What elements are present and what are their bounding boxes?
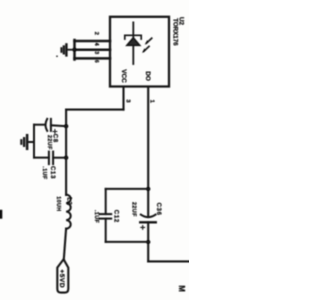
svg-text:6: 6 (93, 60, 99, 63)
wire C12 loop left upper (105, 189, 107, 214)
wire L2 to +5VD (64, 229, 66, 260)
photodiode cathode bar (125, 35, 141, 39)
junction node C8 (64, 124, 68, 128)
photodiode triangle (127, 38, 140, 46)
capacitor C12 plate bottom (100, 218, 112, 220)
wire C12 loop left lower (105, 219, 107, 242)
svg-text:TORX176: TORX176 (171, 18, 178, 46)
capacitor C12 plate top (100, 213, 112, 215)
ground symbol lower stem (28, 141, 34, 143)
svg-text:22UF: 22UF (130, 202, 136, 217)
plus sign C36 (141, 226, 145, 230)
capacitor C13 plate right (52, 152, 54, 165)
wire to ground from connector (67, 49, 75, 51)
svg-text:C12: C12 (113, 210, 119, 223)
optical receiver module U2 TORX176 body (110, 17, 169, 87)
ground symbol lower (26, 135, 29, 149)
net label +5VD pill outline (57, 259, 68, 292)
capacitor C13 left wire (34, 157, 49, 159)
photodiode D1 stem wire (132, 22, 134, 64)
capacitor C36 curved plate (141, 215, 156, 218)
light arrow 2 (144, 46, 149, 51)
wire bottom right to edge (148, 260, 189, 262)
svg-text:+5VD: +5VD (58, 269, 65, 288)
wire VCC horizontal to left rail (66, 109, 123, 111)
light arrow 1 (146, 38, 151, 43)
svg-text:.1UF: .1UF (93, 210, 99, 224)
connector pin line 2 (75, 40, 111, 43)
svg-text:2: 2 (93, 32, 99, 35)
inductor L2 coil (66, 195, 71, 229)
capacitor C13 right wire (53, 157, 66, 159)
svg-text:C36: C36 (155, 203, 161, 216)
svg-text:VCC: VCC (120, 69, 127, 83)
svg-text:L2: L2 (65, 197, 71, 205)
svg-text:DO: DO (144, 71, 151, 81)
svg-text:22UF: 22UF (46, 135, 52, 150)
wire DO pin 1 down from box (147, 87, 149, 217)
capacitor C8 right wire (51, 124, 66, 127)
ground symbol upper (65, 44, 67, 55)
junction node top of C12 loop (146, 187, 150, 191)
connector left bar (73, 40, 76, 60)
wire VCC pin 3 down from box (122, 87, 124, 110)
junction node C13 (64, 156, 68, 160)
svg-text:.1UF: .1UF (41, 166, 47, 180)
svg-text:3: 3 (125, 99, 131, 103)
svg-text:C13: C13 (49, 166, 55, 179)
capacitor C13 plate left (48, 152, 50, 165)
svg-text:10UH: 10UH (55, 196, 61, 211)
svg-text:3: 3 (93, 51, 99, 54)
wire C12 loop top (106, 188, 149, 190)
junction dot on connector bar (72, 48, 76, 52)
capacitor C8 straight plate (50, 119, 52, 131)
connector pin line 4 (75, 48, 111, 51)
connector pin line 6 (75, 57, 111, 60)
plus sign C8 (53, 130, 57, 134)
left edge stray mark (0, 210, 2, 219)
svg-text:1: 1 (148, 100, 154, 104)
capacitor C8 curved plate (46, 119, 48, 131)
svg-text:M: M (177, 285, 186, 292)
svg-text:4: 4 (93, 43, 99, 47)
wire left supply rail (65, 110, 67, 195)
capacitor C8 left wire (34, 124, 45, 126)
wire left ground rail (33, 125, 35, 158)
junction node bottom of C12 loop (146, 240, 150, 244)
stray speck (56, 55, 58, 57)
wire C12 loop bottom (106, 241, 149, 243)
capacitor C36 straight plate (140, 221, 156, 223)
wire below C36 (147, 222, 149, 261)
